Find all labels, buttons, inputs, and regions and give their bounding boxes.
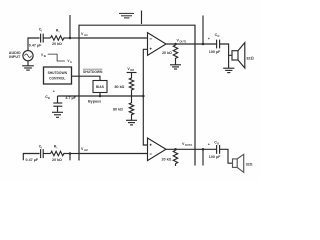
svg-text:100 µF: 100 µF <box>209 155 221 159</box>
label VIL <box>67 59 72 64</box>
svg-text:20 kΩ: 20 kΩ <box>52 42 62 46</box>
label 0.47 uF (Ci1) <box>29 44 42 48</box>
label 100 uF (Co1) <box>209 50 221 54</box>
resistor Ri2 <box>51 151 66 155</box>
label 4.7 uF (CB) <box>65 96 76 100</box>
label + (Co2) <box>208 142 211 146</box>
svg-text:B: B <box>48 96 50 100</box>
wire Ri2 to IC pin IN2 <box>66 153 79 155</box>
wire Co1 to speaker LS1 <box>220 44 232 55</box>
wire Co2 to speaker LS2 <box>220 149 233 163</box>
svg-text:CONTROL: CONTROL <box>49 77 65 81</box>
IC U1 outline (open bottom) <box>79 25 195 165</box>
wire bypass rail to op-amp U1B plus input <box>143 96 147 145</box>
svg-text:O: O <box>217 141 219 145</box>
svg-text:SHUTDOWN: SHUTDOWN <box>83 70 103 74</box>
label 80 kOhm (R2) <box>115 85 125 89</box>
label + (Co1) <box>208 37 211 41</box>
ground under R3 <box>126 116 137 125</box>
wire Ci2 to Ri2 <box>43 153 50 155</box>
node bypass/+input rail junction <box>142 95 145 98</box>
wire shutdown control to BIAS <box>72 76 101 80</box>
label AUDIO INPUT <box>9 51 21 59</box>
wire feedback stub out1 (clipped) <box>202 16 204 45</box>
node BIAS/bypass junction <box>99 95 102 98</box>
bypass rail wire <box>58 95 144 97</box>
label CB <box>45 95 50 100</box>
wire Ri1 to IC pin IN1 <box>66 37 79 39</box>
label VDD <box>127 67 134 72</box>
wire U1A plus input to bypass rail <box>143 49 147 96</box>
wire Ci1 to Ri1 <box>43 37 50 39</box>
node input2 junction <box>69 152 72 155</box>
svg-text:BIAS: BIAS <box>96 85 105 89</box>
node out1/feedback stub <box>202 43 205 46</box>
label 80 kOhm (R3) <box>113 108 123 112</box>
ground under CB <box>52 112 63 117</box>
ground under R1 <box>170 59 181 69</box>
wire U1B output <box>166 148 195 150</box>
VDD supply bar <box>127 72 137 74</box>
svg-text:0.47 µF: 0.47 µF <box>29 44 42 48</box>
ground pin stub at IC top <box>141 11 143 25</box>
label 32 Ohm (LS2) <box>246 163 253 167</box>
svg-text:80 kΩ: 80 kΩ <box>113 108 123 112</box>
svg-text:DD: DD <box>130 68 134 72</box>
BIAS box U1 internal <box>93 81 107 93</box>
label 20 kOhm (Ri1) <box>52 42 62 46</box>
svg-text:SHUTDOWN: SHUTDOWN <box>48 71 68 75</box>
svg-text:in1: in1 <box>84 33 88 37</box>
svg-text:100 µF: 100 µF <box>209 50 221 54</box>
svg-text:0.47 µF: 0.47 µF <box>26 158 39 162</box>
label Co1 <box>215 33 220 38</box>
svg-text:IH: IH <box>44 55 47 58</box>
label Ci2 <box>39 145 43 150</box>
label SHUTDOWN (pin, with overbar) <box>83 70 103 74</box>
svg-text:20 kΩ: 20 kΩ <box>162 51 172 55</box>
label Vm step symbol (shutdown levels) <box>48 54 65 61</box>
label + (CB) <box>53 89 56 93</box>
op-amp U1A <box>148 33 167 56</box>
svg-text:80 kΩ: 80 kΩ <box>115 85 125 89</box>
resistor R2 80k (VDD to bypass) <box>129 73 133 97</box>
label 20 kOhm (R4) <box>162 157 172 161</box>
svg-text:32Ω: 32Ω <box>246 56 254 61</box>
label Vout1 <box>177 38 187 43</box>
svg-text:in2: in2 <box>84 148 88 152</box>
svg-text:INPUT: INPUT <box>9 55 21 59</box>
capacitor Ci2 <box>41 149 44 158</box>
op-amp U1B <box>148 138 167 161</box>
resistor R1 20k (U1A output to gnd) <box>173 45 177 59</box>
node A (input1 junction) <box>69 37 72 40</box>
wire feedback stub 1 (clipped) <box>69 15 71 38</box>
audio input source VS1 <box>23 51 33 61</box>
capacitor CB 4.7uF <box>53 96 62 112</box>
label 0.47 uF (Ci2) <box>26 158 39 162</box>
wire IN2 pin to op-amp U1B minus input <box>79 153 148 155</box>
shutdown control box <box>44 67 72 84</box>
wire IN1 pin to op-amp U1A minus input <box>79 37 148 39</box>
label Ci1 <box>39 28 43 33</box>
resistor Rf1 remnant (faded zigzag marks at top) <box>119 13 134 18</box>
svg-text:20 kΩ: 20 kΩ <box>52 158 62 162</box>
svg-text:O: O <box>217 34 219 38</box>
resistor R3 80k (bypass to gnd) <box>129 96 133 116</box>
wire feedback stub 2 (clipped) <box>69 154 71 161</box>
wire BIAS to bypass rail <box>99 93 101 97</box>
label Co2 <box>214 140 219 145</box>
label SHUTDOWN CONTROL <box>48 71 68 81</box>
svg-text:OUT2: OUT2 <box>185 143 192 147</box>
label VIH <box>41 53 46 58</box>
label Ri2 <box>54 144 58 149</box>
ground under source VS1 <box>22 61 34 70</box>
wire source1 to input row <box>28 38 40 51</box>
label Vin1 <box>81 32 88 37</box>
ground under LS1 <box>223 55 234 72</box>
label 32 Ohm (LS1) <box>246 56 254 61</box>
wire out2 to Co2 <box>195 148 216 150</box>
node out2/feedback stub <box>202 148 205 151</box>
node U1B output junction <box>174 148 177 151</box>
label Ri1 <box>56 28 60 33</box>
label BIAS <box>96 85 105 89</box>
channel 2 input stub (clipped source) <box>23 154 39 161</box>
svg-text:Bypass: Bypass <box>88 100 101 104</box>
svg-text:32Ω: 32Ω <box>246 163 253 167</box>
label Bypass <box>88 100 101 104</box>
resistor R4 20k (U1B output down) <box>173 150 177 166</box>
capacitor Co2 100uF <box>217 145 220 154</box>
wire feedback stub out2 (clipped) <box>202 149 204 165</box>
speaker LS2 <box>233 154 244 172</box>
svg-text:OUT1: OUT1 <box>180 39 187 43</box>
label Vin2 <box>81 147 88 152</box>
svg-text:4.7 µF: 4.7 µF <box>65 96 76 100</box>
speaker LS1 <box>232 43 245 68</box>
label 20 kOhm (Ri2) <box>52 158 62 162</box>
label Vout2 <box>182 142 192 147</box>
wire out1 to Co1 <box>195 43 216 45</box>
capacitor Ci1 <box>41 34 44 43</box>
wire U1A output <box>166 43 195 45</box>
svg-text:20 kΩ: 20 kΩ <box>162 157 172 161</box>
node U1A output junction <box>174 43 177 46</box>
label 100 uF (Co2) <box>209 155 221 159</box>
label 20 kOhm (R1) <box>162 51 172 55</box>
resistor Ri1 <box>51 36 66 40</box>
capacitor Co1 100uF <box>217 40 220 49</box>
